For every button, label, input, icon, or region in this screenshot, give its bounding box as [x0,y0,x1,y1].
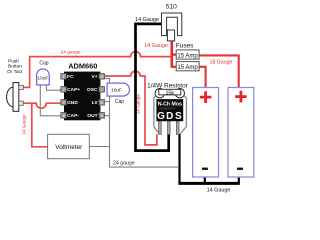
wire: gray 24 gauge bottom horizontal to source wire [110,166,180,168]
IC U1 pin 5 [99,113,105,119]
wire: battery B2 minus lead [238,177,240,183]
wire: gray voltmeter right lead [89,146,109,148]
wire: red from IC pin8 V+ across (hop over black) down to MOSFET gate [105,71,157,145]
wire: red from push button top pin up and across top (24 gauge) [23,52,170,88]
battery B1 [193,88,219,178]
svg-text:FC: FC [67,74,74,80]
svg-text:Cap: Cap [115,99,124,105]
wire: red stub to fuse F2 input [171,66,177,68]
capacitor C1 10uF [37,69,50,85]
svg-text:V+: V+ [91,74,97,80]
svg-text:510: 510 [166,4,177,11]
fuse F1 15 Amp [176,50,199,59]
transistor Q1 N-Ch MOSFET gate leg [159,121,162,134]
wire: gray IC pin8 to cap C2 top [105,78,110,83]
svg-text:14 Gauge: 14 Gauge [135,17,159,23]
svg-text:Cap: Cap [39,60,48,66]
svg-text:8: 8 [101,75,103,79]
svg-text:3: 3 [63,101,65,105]
svg-text:D: D [166,111,173,122]
svg-text:CAP+: CAP+ [67,87,80,93]
wire: black 14 gauge from jack left, down, across to MOSFET drain [136,24,169,151]
IC U1 pin 2 [61,87,67,93]
wire: black bottom bus (14 Gauge) [178,182,239,185]
wire: gray cap C1 right leg to IC pin2 CAP+ [46,85,61,90]
wire: black from MOSFET source down to ground bus [178,134,180,183]
resistor R1 left lead [154,96,160,134]
svg-text:5: 5 [101,114,103,118]
wire: red fuse F1 output to battery B2 + (18 Gauge) [199,55,239,87]
svg-text:N-Ch Mos: N-Ch Mos [158,102,182,108]
svg-text:S: S [175,111,182,122]
transistor Q1 drain leg [168,121,171,134]
svg-text:ADM660: ADM660 [68,62,97,71]
svg-text:G: G [157,111,165,122]
svg-text:Voltmeter: Voltmeter [55,144,83,151]
jack J1 (510) housing [162,13,182,36]
jack J1 tip contact [167,30,174,41]
svg-text:10uF: 10uF [111,87,122,93]
svg-text:2: 2 [63,88,65,92]
wire: battery B1 minus lead [204,177,206,183]
transistor Q1 N-Ch MOSFET body [156,99,183,122]
fuse F2 15 Amp [176,62,199,71]
svg-text:14 Gauge: 14 Gauge [207,188,231,194]
svg-text:1/4W Resistor: 1/4W Resistor [147,82,189,89]
svg-text:LV: LV [92,100,99,106]
svg-text:7: 7 [101,88,103,92]
IC U1 pin 4 [61,113,67,119]
wire: gray stub IC pin5 OUT [105,115,110,117]
svg-text:GND: GND [67,100,78,106]
svg-text:Button: Button [8,64,22,70]
wire: gray stub IC pin6 LV [105,101,110,103]
wire: red fuse F2 output to battery B1 + [199,67,205,88]
wire: red branch down to voltmeter left (24 Gauge) [32,103,48,147]
battery B2 [228,88,254,178]
svg-text:CAP-: CAP- [67,113,79,119]
resistor R1 body (15k) [155,89,184,98]
svg-text:24 gauge: 24 gauge [113,160,135,166]
wire: gray cap C1 left leg down to IC pin4 CAP- [40,85,61,116]
IC U1 pin 3 [61,100,67,106]
IC U1 pin 6 [99,100,105,106]
push button SW1 [7,83,24,112]
svg-text:OUT: OUT [87,113,97,119]
IC U1 pin 1 [61,74,67,80]
svg-text:Or Tact: Or Tact [7,69,23,75]
IC U1 pin 8 [99,74,105,80]
svg-text:24 gauge: 24 gauge [60,50,80,56]
svg-text:24 Gauge: 24 Gauge [22,114,27,135]
capacitor C2 10uF [107,83,129,96]
wire: red from push button bottom pin to IC pin3 GND with under-hop [23,103,61,108]
wire: red stub to fuse F1 input [171,53,177,55]
svg-text:14 Gauge: 14 Gauge [144,43,168,49]
svg-text:4: 4 [63,114,65,118]
svg-text:10uF: 10uF [37,76,48,82]
wire: gray OUT net vertical (cap C2 bottom to bottom rail) [109,96,111,167]
svg-text:OSC: OSC [87,87,98,93]
svg-text:6: 6 [101,101,103,105]
voltmeter M1 [48,134,90,158]
transistor Q1 source leg [176,121,179,134]
IC U1 ADM660 body [64,72,100,121]
svg-text:15 Amp: 15 Amp [177,53,198,59]
svg-text:15 Amp: 15 Amp [177,65,198,71]
svg-text:15k: 15k [165,90,174,96]
svg-text:1: 1 [63,75,65,79]
svg-text:18 Gauge: 18 Gauge [210,59,233,65]
svg-text:Fuses: Fuses [176,43,193,50]
resistor R1 right lead [180,96,186,134]
wire: thick red from jack tip down to fuse inputs [171,41,174,67]
IC U1 pin 7 [99,87,105,93]
